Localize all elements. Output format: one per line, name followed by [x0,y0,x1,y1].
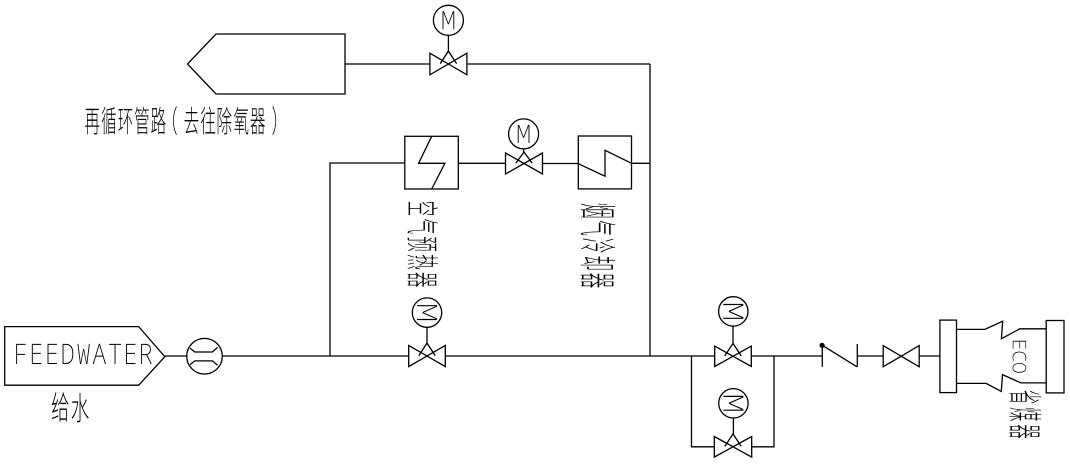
economizer body bottom with break [957,375,1047,392]
wire: MV4 to spool [751,355,822,357]
wire: E2 to right riser [632,162,651,164]
label: 省煤器 [1009,390,1041,438]
motor-operated valve MV2 [506,119,543,174]
motor-operated valve MV5 (bypass) [714,389,751,458]
label: 空气预热器 [407,202,438,287]
motor-operated valve MV3 [409,298,446,367]
heat exchanger E2 (flue gas cooler) [578,136,631,189]
label: 再循环管路（去往除氧器） [85,106,276,135]
economizer right flange [1046,321,1064,393]
wire: MV1 to right riser [467,63,650,65]
wire: spool to valve V1 [857,355,883,357]
wire: main feedwater line [222,355,408,357]
motor-operated valve MV4 (main) [715,297,752,367]
off-page flag: recirculation line [188,34,346,94]
flow element FE (meter) [187,338,223,374]
label: 烟气冷却器 [581,204,616,288]
wire: MV3 to MV4 [445,355,714,357]
wire: E1 to MV2 [458,162,505,164]
label: 给水 [52,392,89,422]
label: FEEDWATER [16,344,152,364]
wire: flag tip to flow meter [165,355,187,357]
label: ECO [1013,341,1027,373]
economizer body top with break [957,321,1047,339]
wire: MV2 to E2 [543,163,579,165]
wire: flag to valve MV1 [345,63,430,65]
wire: V1 to economizer [919,355,940,357]
wire: bypass loop [692,356,775,447]
spool break symbol [820,343,858,367]
off-page flag: FEEDWATER [5,327,165,386]
heat exchanger E1 (air preheater) [405,136,459,189]
valve V1 (manual) [883,346,919,367]
motor-operated valve MV1 (recirculation) [430,5,467,75]
wire: right riser x=650 [649,64,651,356]
economizer left flange [940,320,957,393]
wire: left riser x=330 and run to E1 [330,163,405,356]
